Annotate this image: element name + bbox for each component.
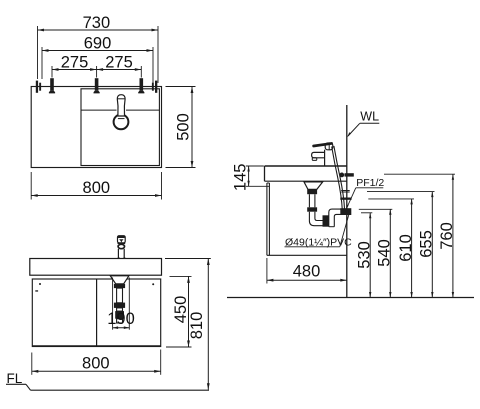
- plan view: faucet hole (keyhole): [114, 115, 129, 130]
- svg-text:610: 610: [397, 234, 415, 262]
- svg-text:690: 690: [84, 35, 112, 53]
- side view: trap union nut: [323, 215, 329, 226]
- side view: supply hose: [332, 147, 343, 211]
- dimension 760: [384, 173, 455, 175]
- front view: faucet: [118, 236, 126, 243]
- side view: supply nuts on wall pipe: [341, 190, 350, 192]
- dimension 275 right (plan): [97, 69, 142, 71]
- svg-text:800: 800: [82, 355, 110, 373]
- svg-text:655: 655: [418, 230, 436, 258]
- svg-text:190: 190: [107, 310, 135, 328]
- svg-text:275: 275: [61, 54, 89, 72]
- svg-text:810: 810: [188, 312, 206, 340]
- side view: faucet spout: [312, 152, 325, 157]
- dimension 655: [367, 191, 435, 193]
- mounting bolt 1 (plan): [50, 78, 54, 90]
- front view: drain tailpipe: [117, 288, 123, 303]
- side view: trap bend: [309, 212, 322, 226]
- side view: floor line: [227, 297, 474, 299]
- dimension 610: [368, 198, 414, 200]
- front view: drain nut 2: [114, 303, 125, 308]
- svg-text:480: 480: [293, 263, 321, 281]
- svg-text:730: 730: [83, 14, 111, 32]
- dimension 800 (front bottom): [31, 353, 33, 375]
- dimension 500 (plan right): [166, 86, 196, 88]
- front view: cabinet: [32, 279, 160, 347]
- FL floor line: [6, 383, 26, 385]
- svg-text:760: 760: [438, 222, 456, 250]
- dimension 800 (plan bottom): [30, 172, 32, 200]
- side view: cabinet panel: [266, 183, 268, 255]
- wall clip left (plan): [36, 81, 38, 93]
- front view: drain flange: [110, 276, 129, 284]
- plan view: basin rect: [81, 89, 159, 166]
- side view: drain nut 1: [307, 189, 317, 194]
- side view: tailpipe: [308, 194, 310, 207]
- dimension 730 (plan top): [37, 26, 39, 79]
- side view: wall line: [346, 105, 348, 298]
- svg-text:530: 530: [355, 241, 373, 269]
- svg-text:WL: WL: [360, 110, 379, 124]
- dimension 190 (front): [112, 278, 114, 330]
- wall clip right (plan): [152, 83, 154, 91]
- dimension 145 (side left): [246, 165, 264, 167]
- front view: door hinge dots: [39, 283, 41, 285]
- front view: drain coupling: [115, 311, 124, 319]
- side view: countertop: [265, 165, 347, 167]
- svg-text:540: 540: [375, 239, 393, 267]
- side view: drain nut 2: [307, 207, 317, 211]
- dimension 450 (front right): [170, 275, 192, 277]
- front view: countertop slab: [30, 259, 162, 276]
- side view: trap riser and wall outlet: [329, 209, 341, 227]
- dimension 690 (plan): [41, 47, 43, 79]
- side view: water supply fitting: [339, 173, 344, 178]
- side view: faucet lever: [314, 143, 332, 146]
- front view: drain nut 1: [114, 284, 125, 288]
- mounting bolt 3 (plan): [140, 78, 144, 90]
- dimension 275 left (plan): [51, 66, 53, 78]
- dimension 540: [359, 208, 393, 210]
- dimension 480 (side bottom): [266, 258, 268, 284]
- svg-text:FL: FL: [7, 371, 23, 386]
- svg-text:800: 800: [83, 179, 111, 197]
- dimension 810 (front far right): [165, 258, 211, 260]
- side view: faucet body: [324, 150, 326, 166]
- svg-text:500: 500: [174, 113, 192, 141]
- side view: wall drain flange: [340, 208, 351, 215]
- svg-text:275: 275: [105, 54, 133, 72]
- plan view: basin deck line: [81, 109, 117, 111]
- mounting bolt 2 (plan): [95, 78, 99, 90]
- dimension 530: [361, 212, 372, 214]
- side view: drain flange: [304, 182, 323, 189]
- plan view: vanity outer rect: [31, 87, 161, 168]
- front view: door divider: [96, 279, 98, 347]
- svg-text:145: 145: [232, 164, 250, 192]
